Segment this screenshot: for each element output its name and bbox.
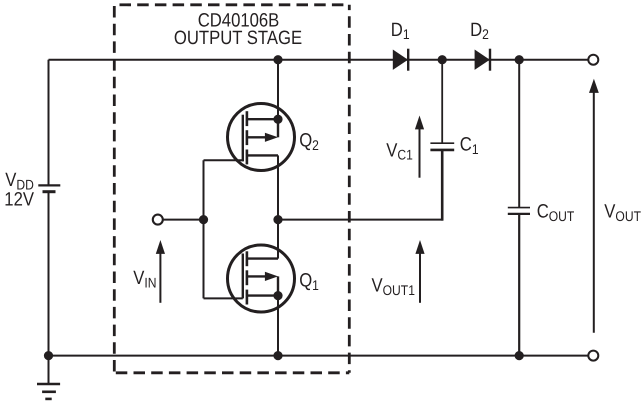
wire: top rail (49, 59, 589, 61)
arrow VC1 (415, 116, 424, 178)
node: top rail / Q2 (273, 55, 282, 64)
wire: top node to C1 (441, 60, 443, 143)
wire: output node to C1 (278, 219, 443, 221)
battery VDD short plate (43, 190, 56, 193)
wire: VDD to Q2 source (277, 60, 279, 119)
terminal: output bottom open circle (588, 351, 598, 361)
node: input junction (199, 215, 208, 224)
battery VDD long plate (38, 184, 60, 186)
node: C1 top junction (438, 55, 447, 64)
capacitor COUT (508, 208, 530, 214)
diode D1 (393, 49, 408, 71)
dashed box: CD40106B output stage (114, 5, 349, 373)
arrow VOUT1 (415, 240, 424, 303)
terminal: input open circle (153, 215, 163, 225)
wire: bottom rail (49, 355, 589, 357)
ground (37, 356, 60, 399)
node: ground junction (44, 351, 53, 360)
node: COUT top junction (515, 55, 524, 64)
node: output junction (273, 215, 282, 224)
wire: top node to COUT (518, 60, 520, 208)
wire: Q1 source to bottom rail (277, 296, 279, 356)
svg-text:OUTPUT STAGE: OUTPUT STAGE (174, 28, 302, 49)
arrow VIN (156, 240, 165, 303)
node: bottom rail / COUT (515, 351, 524, 360)
arrow VOUT (589, 79, 599, 333)
wire: Q1 gate lead (204, 297, 243, 299)
terminal: output top open circle (588, 55, 598, 65)
wire: left rail upper (48, 60, 50, 185)
transistor Q1 (NMOS) (228, 245, 295, 312)
wire: COUT to bottom rail (518, 214, 520, 356)
capacitor C1 (430, 143, 454, 150)
transistor Q2 (PMOS) (228, 104, 295, 171)
wire: Q2 drain to output node (277, 155, 279, 258)
wire: input lead (163, 219, 204, 221)
node: bottom rail / Q1 (273, 351, 282, 360)
wire: Q2 gate lead (204, 159, 243, 161)
diode D2 (475, 49, 490, 71)
svg-text:12V: 12V (4, 190, 34, 211)
wire: gate bus vertical (203, 160, 205, 298)
wire: left rail lower (48, 192, 50, 356)
